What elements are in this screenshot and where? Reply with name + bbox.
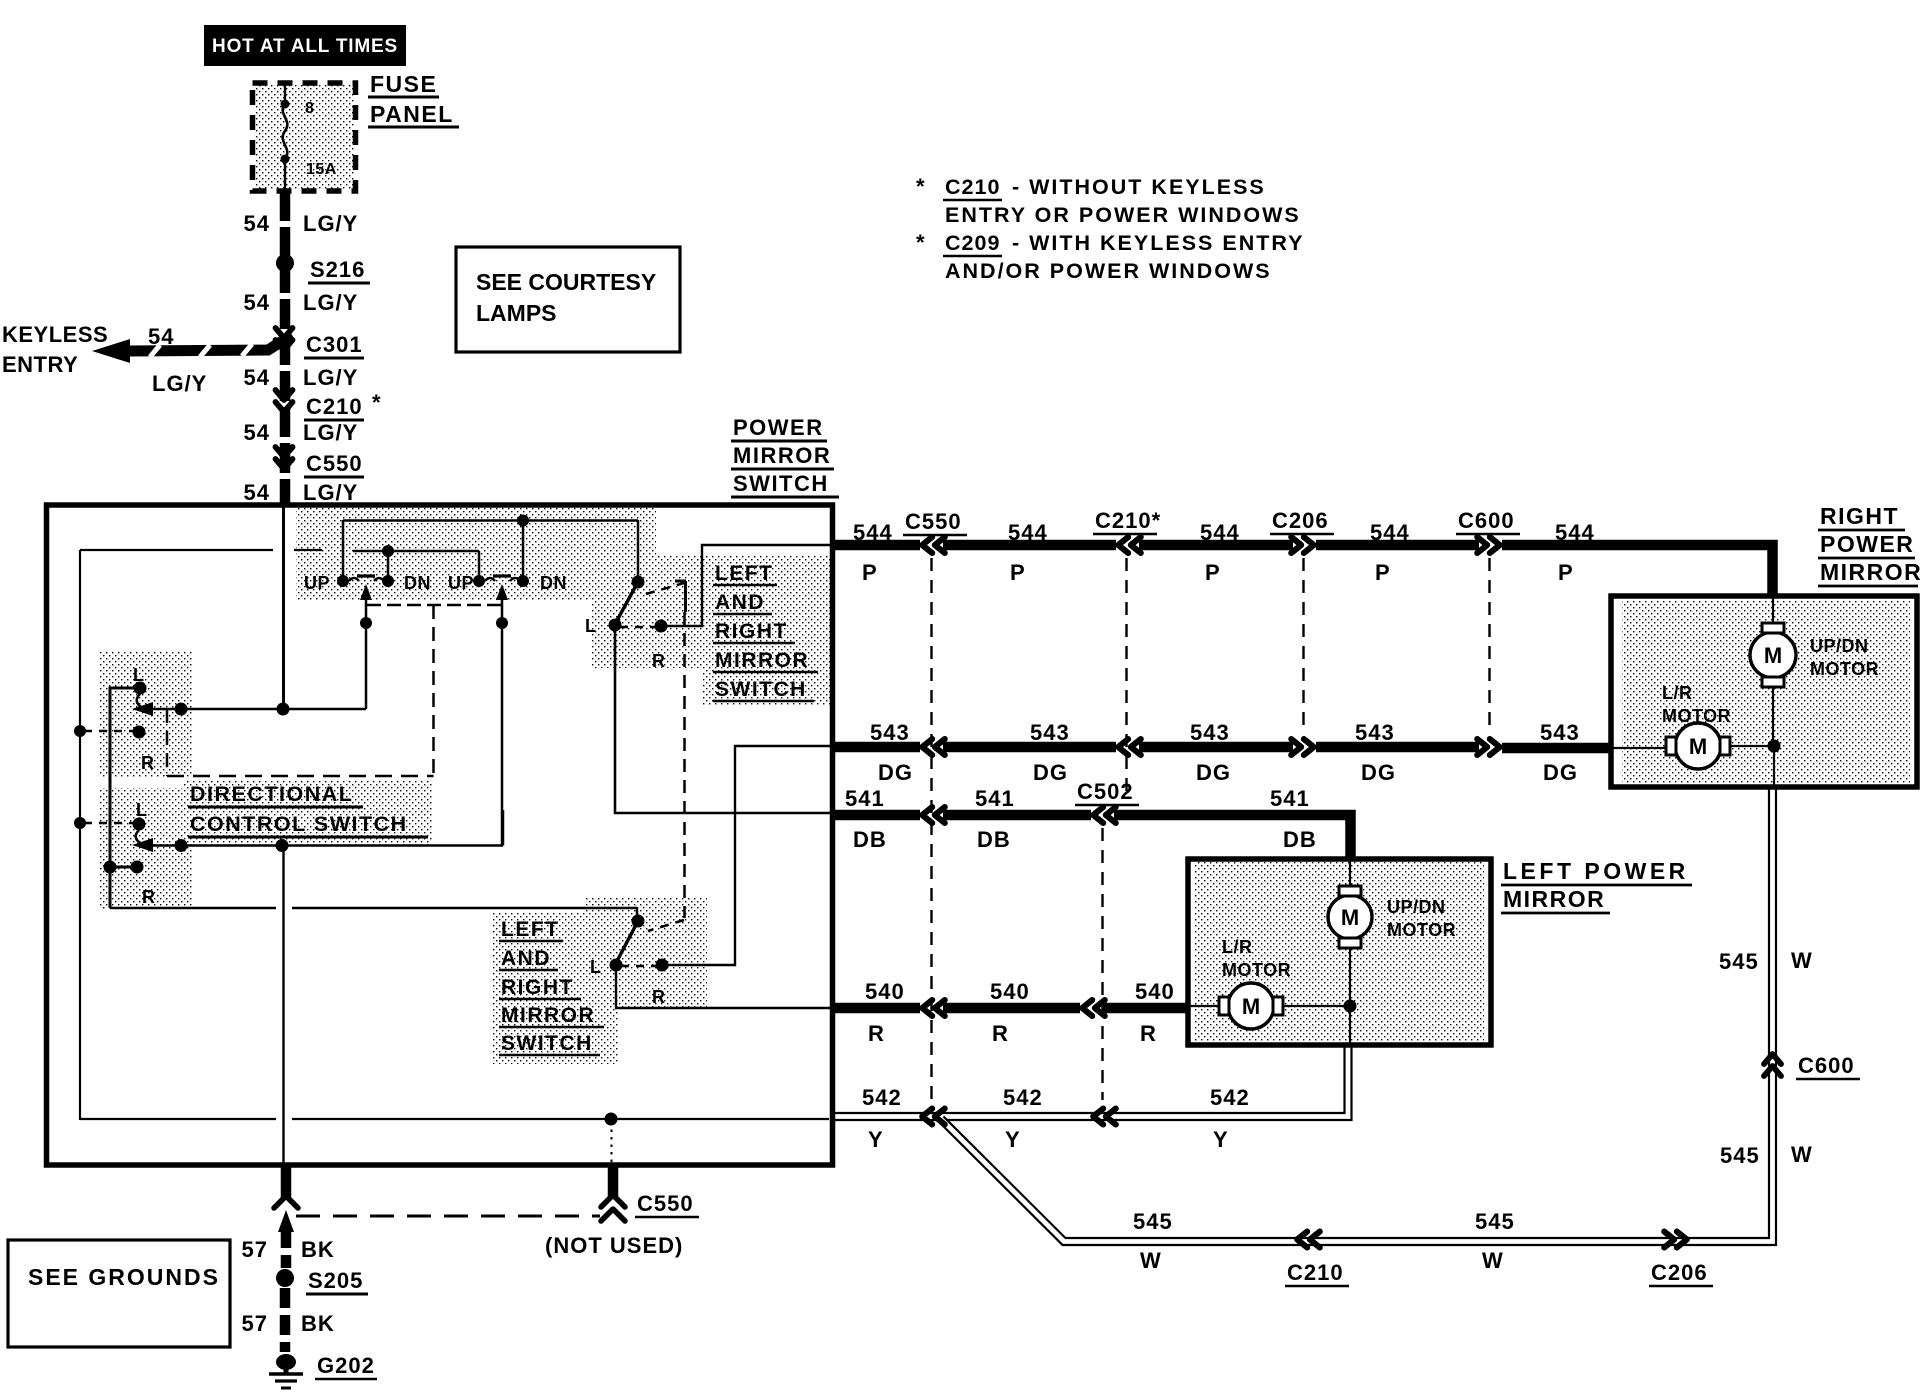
up/dn motor M (right mirror) <box>1750 623 1879 687</box>
svg-text:MOTOR: MOTOR <box>1222 960 1291 980</box>
connector C600 on 544 <box>1477 537 1500 553</box>
svg-text:R: R <box>652 987 666 1007</box>
wire 540 R <box>830 1003 1189 1014</box>
svg-text:SWITCH: SWITCH <box>501 1032 593 1055</box>
svg-text:W: W <box>1140 1248 1162 1273</box>
svg-text:544: 544 <box>1370 520 1410 545</box>
svg-text:544: 544 <box>1200 520 1240 545</box>
wire 57 BK to ground <box>280 1288 291 1352</box>
label FUSE PANEL <box>368 71 459 127</box>
note box SEE COURTESY LAMPS <box>456 247 680 352</box>
svg-text:L: L <box>133 665 145 685</box>
connector C550 on 543 <box>922 739 945 755</box>
mechanical coupling dash-dot linkage <box>167 605 501 776</box>
svg-text:C210*: C210* <box>1095 508 1161 533</box>
label 54 LG/Y (below fuse) <box>244 211 359 236</box>
svg-text:R: R <box>142 887 156 907</box>
node upper armature / feed junction <box>175 703 290 716</box>
label 57 BK (lower) <box>242 1311 335 1336</box>
dashed link between mirror-select switches <box>683 612 686 918</box>
svg-text:CONTROL SWITCH: CONTROL SWITCH <box>190 812 408 836</box>
wire 544 P <box>830 545 1773 596</box>
svg-text:POWER: POWER <box>1820 531 1914 557</box>
svg-text:54: 54 <box>244 480 270 505</box>
wire inside left mirror (up/dn branch) <box>1349 861 1351 1045</box>
wire R contact to 543 output <box>662 746 830 965</box>
svg-text:15A: 15A <box>306 161 337 178</box>
connector plane C210/C502 (dashed) <box>1103 558 1127 1100</box>
connector plane C600 (dashed) <box>1488 558 1490 733</box>
svg-text:R: R <box>1140 1021 1157 1046</box>
svg-text:RIGHT: RIGHT <box>715 620 788 643</box>
svg-text:541: 541 <box>845 786 885 811</box>
svg-text:SWITCH: SWITCH <box>733 471 829 496</box>
svg-text:*: * <box>372 390 382 415</box>
svg-text:LG/Y: LG/Y <box>303 365 358 390</box>
fuse F 15A inside fuse panel <box>281 85 337 190</box>
power mirror switch box outline <box>47 505 833 1165</box>
wire ground side inside box <box>282 845 284 1164</box>
connector C600 on 543 <box>1477 739 1500 755</box>
svg-text:542: 542 <box>862 1085 902 1110</box>
left UP/DN switch SW1 <box>304 573 431 709</box>
svg-text:DB: DB <box>977 827 1011 852</box>
bottom left-and-right mirror switch <box>590 908 684 1007</box>
svg-text:UP: UP <box>304 573 330 593</box>
svg-text:C210: C210 <box>945 175 1000 199</box>
KEYLESS ENTRY branch arrow <box>2 322 292 396</box>
svg-text:RIGHT: RIGHT <box>501 976 574 999</box>
connector C210 on 543 <box>1118 739 1141 755</box>
svg-text:S205: S205 <box>308 1268 363 1293</box>
svg-text:DG: DG <box>1543 760 1578 785</box>
svg-text:R: R <box>141 753 155 773</box>
svg-text:MIRROR: MIRROR <box>715 649 809 672</box>
svg-text:M: M <box>1341 905 1359 930</box>
label 54 LG/Y (below C301) <box>244 365 359 390</box>
svg-text:MOTOR: MOTOR <box>1387 920 1456 940</box>
svg-text:LAMPS: LAMPS <box>476 300 557 326</box>
svg-text:KEYLESS: KEYLESS <box>2 322 108 347</box>
connector C206 on 543 <box>1291 739 1314 755</box>
wire 54 feed inside box (vertical) <box>282 505 285 709</box>
svg-text:C206: C206 <box>1272 508 1329 533</box>
connector C206 on 545 <box>1664 1232 1687 1248</box>
svg-text:M: M <box>1242 994 1260 1019</box>
svg-text:LEFT: LEFT <box>715 562 774 585</box>
svg-text:545: 545 <box>1133 1209 1173 1234</box>
up rail (rail1) <box>343 520 638 577</box>
svg-text:L/R: L/R <box>1222 937 1253 957</box>
svg-text:54: 54 <box>148 324 174 349</box>
svg-text:DN: DN <box>404 573 431 593</box>
inner bus rectangle (thin) <box>80 550 829 1120</box>
svg-text:*: * <box>916 174 926 199</box>
connector C550 not used stub <box>545 1166 699 1258</box>
svg-text:LG/Y: LG/Y <box>303 290 358 315</box>
connector C206 on 544 <box>1291 537 1314 553</box>
ground G202 <box>269 1353 377 1388</box>
stipple shading patches (decorative halftone) <box>100 84 1910 1064</box>
svg-text:DIRECTIONAL: DIRECTIONAL <box>190 782 353 806</box>
node junction left mirror <box>1344 1000 1357 1013</box>
svg-text:MOTOR: MOTOR <box>1662 706 1731 726</box>
labels wire 544 P <box>853 508 1595 585</box>
connector C550-plane on 540 <box>922 1000 945 1016</box>
svg-text:UP: UP <box>448 573 474 593</box>
connector C301 <box>276 328 365 358</box>
node lower armature / ground junction <box>175 839 289 852</box>
connector C210 on 545 <box>1297 1232 1320 1248</box>
svg-text:DB: DB <box>1283 827 1317 852</box>
svg-text:L/R: L/R <box>1662 683 1693 703</box>
svg-text:8: 8 <box>305 100 314 117</box>
svg-text:SEE COURTESY: SEE COURTESY <box>476 269 656 295</box>
svg-text:L: L <box>136 800 148 820</box>
svg-text:- WITHOUT KEYLESS: - WITHOUT KEYLESS <box>1012 175 1266 199</box>
wire inside right mirror (l/r branch) <box>1613 746 1774 748</box>
svg-text:C210: C210 <box>1287 1260 1344 1285</box>
label LEFT AND RIGHT MIRROR SWITCH (top) <box>713 562 818 701</box>
right UP/DN switch SW2 <box>448 573 567 845</box>
svg-text:DG: DG <box>878 760 913 785</box>
svg-text:LG/Y: LG/Y <box>303 211 358 236</box>
wire 542 Y (outlined wire) <box>831 1044 1348 1117</box>
connector C502-plane on 540 <box>1082 1000 1105 1016</box>
svg-text:ENTRY: ENTRY <box>2 352 78 377</box>
svg-text:C600: C600 <box>1458 508 1515 533</box>
labels wire 545 W <box>1133 948 1860 1286</box>
svg-text:C502: C502 <box>1077 779 1134 804</box>
svg-text:54: 54 <box>244 365 270 390</box>
svg-text:57: 57 <box>242 1311 268 1336</box>
fuse panel dashed box <box>253 83 356 191</box>
svg-text:543: 543 <box>1190 720 1230 745</box>
svg-text:C209: C209 <box>945 231 1000 255</box>
svg-text:543: 543 <box>1030 720 1070 745</box>
svg-text:542: 542 <box>1003 1085 1043 1110</box>
splice S216 <box>276 254 370 283</box>
svg-text:RIGHT: RIGHT <box>1820 503 1899 529</box>
svg-text:L: L <box>585 616 597 636</box>
svg-text:P: P <box>1205 560 1221 585</box>
note box SEE GROUNDS <box>8 1240 230 1347</box>
connector C502 on 541 <box>1093 807 1116 823</box>
svg-text:R: R <box>992 1021 1009 1046</box>
connector C550 on 544 <box>922 537 945 553</box>
wire inside right mirror (up/dn branch) <box>1773 598 1774 787</box>
wire 541 DB <box>830 815 1351 860</box>
top left-and-right mirror switch <box>585 520 686 671</box>
lower armature of directional switch <box>132 810 503 852</box>
label 54 LG/Y (above box) <box>244 480 359 505</box>
svg-text:HOT AT ALL TIMES: HOT AT ALL TIMES <box>212 36 398 57</box>
ground stub below box with connector <box>274 1166 298 1268</box>
svg-text:DG: DG <box>1033 760 1068 785</box>
svg-text:LEFT: LEFT <box>501 918 560 941</box>
svg-text:M: M <box>1689 734 1707 759</box>
wire R contact to 544 feed <box>661 545 830 626</box>
svg-text:POWER: POWER <box>733 415 824 440</box>
svg-text:S216: S216 <box>310 257 365 282</box>
svg-text:545: 545 <box>1719 949 1759 974</box>
svg-text:R: R <box>652 651 666 671</box>
connector C550 (feed) <box>276 447 365 477</box>
label 54 LG/Y (below S216) <box>244 290 359 315</box>
svg-text:541: 541 <box>975 786 1015 811</box>
svg-text:C206: C206 <box>1651 1260 1708 1285</box>
left power mirror box <box>1188 859 1491 1045</box>
label DIRECTIONAL CONTROL SWITCH <box>188 782 428 837</box>
svg-text:C301: C301 <box>306 332 363 357</box>
label LEFT AND RIGHT MIRROR SWITCH (bottom) <box>499 918 604 1055</box>
svg-text:544: 544 <box>853 520 893 545</box>
svg-text:MIRROR: MIRROR <box>501 1004 595 1027</box>
connector plane C550 (dashed) <box>930 558 932 1100</box>
svg-text:W: W <box>1791 1142 1813 1167</box>
svg-text:543: 543 <box>870 720 910 745</box>
svg-text:DB: DB <box>853 827 887 852</box>
node on bottom bus <box>605 1113 618 1164</box>
svg-text:542: 542 <box>1210 1085 1250 1110</box>
svg-text:(NOT USED): (NOT USED) <box>545 1233 683 1258</box>
node on rail1 <box>517 515 529 527</box>
dashed tie line to C550 stub <box>296 1215 600 1218</box>
svg-text:54: 54 <box>244 211 270 236</box>
svg-text:DG: DG <box>1361 760 1396 785</box>
label 57 BK (upper) <box>242 1237 335 1262</box>
l/r motor M (left mirror) <box>1219 937 1291 1029</box>
up/dn motor M (left mirror) <box>1328 886 1456 948</box>
connector C502-plane on 542 <box>1093 1109 1116 1125</box>
svg-text:P: P <box>1010 560 1026 585</box>
svg-text:Y: Y <box>868 1127 884 1152</box>
node on SW2 armature <box>496 617 508 629</box>
svg-text:*: * <box>916 230 926 255</box>
svg-text:P: P <box>1375 560 1391 585</box>
svg-text:FUSE: FUSE <box>370 71 437 97</box>
labels wire 543 DG <box>870 720 1580 785</box>
svg-text:L: L <box>590 957 602 977</box>
svg-text:Y: Y <box>1005 1127 1021 1152</box>
label LEFT POWER MIRROR <box>1501 858 1692 913</box>
svg-text:UP/DN: UP/DN <box>1810 636 1869 656</box>
svg-text:MIRROR: MIRROR <box>733 443 831 468</box>
svg-text:54: 54 <box>244 290 270 315</box>
wire inside left mirror (l/r branch) <box>1190 1005 1350 1007</box>
svg-text:544: 544 <box>1555 520 1595 545</box>
labels wire 541 DB <box>845 779 1317 852</box>
connector plane C206 (dashed) <box>1302 558 1304 733</box>
connector C600 on 545 (vertical) <box>1764 1054 1781 1076</box>
label RIGHT POWER MIRROR <box>1818 503 1922 586</box>
upper armature of directional switch <box>132 702 366 716</box>
node on SW1 armature <box>360 617 372 629</box>
svg-text:SEE GROUNDS: SEE GROUNDS <box>28 1264 220 1290</box>
svg-text:DN: DN <box>540 573 567 593</box>
footnote C210 / C209 definitions <box>916 174 1304 283</box>
svg-text:54: 54 <box>244 420 270 445</box>
svg-text:540: 540 <box>1135 979 1175 1004</box>
svg-text:545: 545 <box>1720 1143 1760 1168</box>
svg-text:C600: C600 <box>1798 1053 1855 1078</box>
svg-text:Y: Y <box>1213 1127 1229 1152</box>
wire bracket output to lower mirror-switch pivot <box>110 907 637 909</box>
svg-text:MIRROR: MIRROR <box>1820 559 1922 585</box>
label POWER MIRROR SWITCH <box>731 415 839 497</box>
svg-text:BK: BK <box>301 1237 335 1262</box>
node on rail2 <box>382 545 394 557</box>
down rail (rail2) <box>353 551 479 577</box>
svg-text:544: 544 <box>1008 520 1048 545</box>
splice S205 <box>276 1268 368 1294</box>
labels wire 542 Y <box>862 1085 1250 1152</box>
svg-text:AND: AND <box>715 591 765 614</box>
svg-text:C550: C550 <box>306 451 363 476</box>
svg-text:LEFT POWER: LEFT POWER <box>1503 858 1689 884</box>
svg-text:UP/DN: UP/DN <box>1387 897 1446 917</box>
l/r motor M (right mirror) <box>1662 683 1731 769</box>
wire L contact to 540 output <box>616 965 830 1008</box>
svg-text:LG/Y: LG/Y <box>303 420 358 445</box>
svg-text:57: 57 <box>242 1237 268 1262</box>
connector C550-plane on 542 <box>922 1109 945 1125</box>
svg-text:C550: C550 <box>905 509 962 534</box>
svg-text:BK: BK <box>301 1311 335 1336</box>
wire 543 DG <box>830 747 1613 748</box>
connector C210 on 544 <box>1118 537 1141 553</box>
svg-text:540: 540 <box>990 979 1030 1004</box>
svg-text:C550: C550 <box>637 1191 694 1216</box>
svg-text:R: R <box>868 1021 885 1046</box>
svg-text:P: P <box>862 560 878 585</box>
svg-text:543: 543 <box>1540 720 1580 745</box>
svg-text:543: 543 <box>1355 720 1395 745</box>
wire 54 LG/Y feed from fuse panel down to switch box <box>280 191 291 505</box>
node junction right mirror <box>1768 740 1781 753</box>
labels wire 540 R <box>865 979 1175 1046</box>
svg-text:SWITCH: SWITCH <box>715 678 807 701</box>
connector C210 * <box>276 390 382 420</box>
wire L contact to 541 output <box>615 625 830 813</box>
svg-text:- WITH KEYLESS ENTRY: - WITH KEYLESS ENTRY <box>1012 231 1304 255</box>
svg-text:P: P <box>1558 560 1574 585</box>
wire 545 W (outlined wire) <box>941 788 1773 1242</box>
right power mirror box <box>1611 596 1917 787</box>
svg-text:PANEL: PANEL <box>370 101 454 127</box>
svg-text:ENTRY OR POWER WINDOWS: ENTRY OR POWER WINDOWS <box>945 203 1301 227</box>
label HOT AT ALL TIMES <box>204 25 406 66</box>
svg-text:LG/Y: LG/Y <box>303 480 358 505</box>
svg-text:G202: G202 <box>317 1353 375 1378</box>
svg-text:AND/OR POWER WINDOWS: AND/OR POWER WINDOWS <box>945 259 1272 283</box>
svg-text:LG/Y: LG/Y <box>152 371 207 396</box>
svg-text:545: 545 <box>1475 1209 1515 1234</box>
label 54 LG/Y (below C210) <box>244 420 359 445</box>
svg-text:540: 540 <box>865 979 905 1004</box>
directional control switch contacts and bracket <box>74 665 156 908</box>
svg-text:C210: C210 <box>306 394 363 419</box>
svg-text:541: 541 <box>1270 786 1310 811</box>
svg-text:W: W <box>1791 948 1813 973</box>
svg-text:W: W <box>1482 1248 1504 1273</box>
svg-text:MIRROR: MIRROR <box>1503 886 1605 912</box>
svg-text:MOTOR: MOTOR <box>1810 659 1879 679</box>
svg-text:M: M <box>1764 643 1782 668</box>
svg-text:DG: DG <box>1196 760 1231 785</box>
connector C550-plane on 541 <box>922 807 945 823</box>
svg-text:AND: AND <box>501 947 551 970</box>
